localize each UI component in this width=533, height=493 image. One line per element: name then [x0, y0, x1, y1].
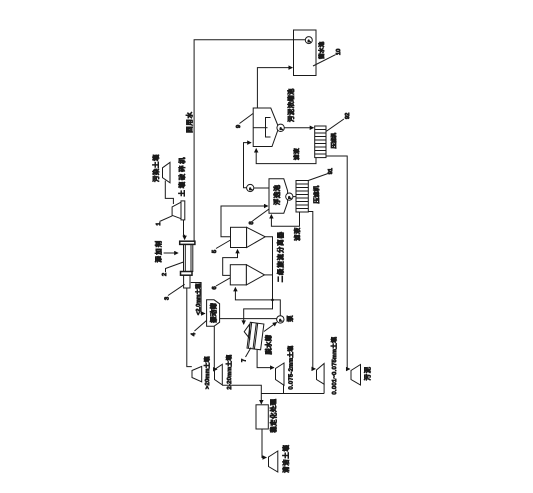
wire screen4 fines to sump pump	[220, 318, 277, 320]
crusher 土壤破碎机	[172, 156, 186, 220]
wire cyclone underflow to dewatering screen	[244, 237, 273, 324]
label 9	[234, 113, 253, 128]
svg-text:2-20mm土壤: 2-20mm土壤	[225, 355, 233, 390]
svg-text:蓄水池: 蓄水池	[318, 41, 326, 59]
svg-text:9: 9	[234, 125, 242, 128]
svg-text:91: 91	[326, 168, 334, 174]
svg-text:5: 5	[210, 250, 218, 253]
reservoir 10 蓄水池	[294, 30, 326, 76]
svg-text:土壤破碎机: 土壤破碎机	[177, 156, 186, 197]
label 1	[154, 216, 173, 226]
svg-text:P: P	[279, 127, 285, 130]
pile >20mm soil	[192, 356, 211, 389]
wire press92 cake to sludge pile	[326, 156, 350, 369]
svg-text:二级旋流分离器: 二级旋流分离器	[275, 231, 284, 282]
label 2	[160, 262, 183, 276]
dewatering screen 7 脱水筛	[244, 322, 272, 354]
svg-text:回用水: 回用水	[184, 111, 193, 133]
additive arrow 添加剂	[154, 239, 179, 262]
svg-text:0.001~0.075mm土壤: 0.001~0.075mm土壤	[330, 337, 338, 395]
svg-text:脱水筛: 脱水筛	[264, 335, 273, 355]
cyclone stage1 lower 6	[230, 265, 264, 285]
label 3	[162, 284, 184, 300]
wire thickener pump to filter press 92	[284, 127, 313, 129]
svg-text:P: P	[307, 39, 313, 42]
pile 0.075-2mm soil	[276, 346, 295, 390]
flotation tank 8 浮选池	[269, 179, 293, 213]
cyclone stage2 upper 5	[231, 227, 266, 247]
svg-text:2: 2	[160, 273, 168, 276]
svg-text:6: 6	[210, 286, 218, 289]
inspection box 检测验收	[256, 398, 278, 432]
wire dewatering screen to 0.075-2mm pile	[257, 350, 274, 368]
wire sump pump to cyclone2 feed	[235, 288, 280, 316]
svg-text:污染土壤: 污染土壤	[151, 154, 160, 182]
svg-text:8: 8	[247, 221, 255, 224]
filtrate return 92 滤液	[256, 148, 316, 164]
wire cyclone2 overflow to cyclone1 feed	[223, 250, 238, 276]
svg-text:<2.0mm土壤: <2.0mm土壤	[194, 283, 202, 315]
svg-text:7: 7	[239, 359, 247, 362]
svg-text:1: 1	[154, 222, 162, 225]
wire trommel fines to screen4	[191, 283, 205, 316]
svg-text:>20mm土壤: >20mm土壤	[203, 356, 211, 389]
pile 清洁土壤 clean soil	[269, 444, 291, 472]
pile 2-20mm soil	[215, 355, 234, 390]
svg-text:滤液: 滤液	[292, 148, 300, 160]
wire trommel oversize to >20mm pile	[187, 288, 192, 367]
trommel washer 2	[180, 241, 195, 288]
label 92	[326, 113, 351, 132]
label 8	[247, 209, 269, 225]
wire flotation pump to filter press 91	[293, 196, 296, 198]
svg-text:92: 92	[343, 113, 351, 119]
hopper 污染土壤	[151, 154, 170, 183]
label 10	[313, 49, 342, 66]
collection line to inspection box	[222, 384, 324, 404]
svg-text:添加剂: 添加剂	[154, 239, 163, 262]
svg-text:泵: 泵	[285, 315, 294, 322]
label 6	[210, 278, 231, 290]
wire press91 cake to 0.001-0.075mm pile	[308, 212, 315, 369]
label 7	[239, 348, 251, 363]
svg-text:0.075-2mm土壤: 0.075-2mm土壤	[287, 346, 295, 390]
svg-text:污泥浓缩池: 污泥浓缩池	[286, 88, 295, 122]
wire crusher to trommel	[184, 220, 185, 240]
label 5	[210, 240, 231, 253]
thickener 9 污泥浓缩池	[253, 88, 295, 147]
sump pump circle	[264, 315, 294, 332]
filter press 92 压滤机	[315, 126, 338, 158]
svg-text:P: P	[278, 319, 284, 322]
svg-text:压滤机: 压滤机	[330, 132, 338, 148]
pile 污泥 sludge	[351, 365, 372, 386]
recycled water line 回用水	[184, 40, 305, 241]
filtrate return 91 滤液	[271, 212, 301, 241]
wire inspection to clean soil	[262, 429, 266, 458]
svg-text:振动筛: 振动筛	[209, 303, 218, 323]
screen 4 振动筛	[207, 300, 220, 327]
feed pump to thickener	[244, 143, 270, 192]
wire screen4 underflow to 2-20mm pile	[214, 326, 217, 369]
wire thickener overflow to reservoir	[257, 68, 292, 108]
svg-text:压滤机: 压滤机	[312, 186, 321, 204]
svg-text:10: 10	[334, 49, 342, 55]
svg-text:P: P	[287, 196, 293, 199]
label 91	[308, 168, 334, 180]
svg-text:P: P	[248, 187, 254, 190]
wire hopper to crusher	[165, 181, 173, 204]
svg-text:3: 3	[162, 297, 170, 300]
svg-text:污泥: 污泥	[363, 366, 372, 381]
label 4	[189, 321, 207, 337]
svg-text:滤液: 滤液	[292, 227, 301, 241]
svg-text:清洁土壤: 清洁土壤	[281, 444, 290, 472]
pile 0.001-0.075mm soil	[317, 337, 339, 395]
svg-text:4: 4	[189, 333, 197, 336]
filter press 91 压滤机	[296, 181, 321, 213]
wire cyclone1 overflow to flotation	[221, 206, 268, 237]
svg-text:浮选池: 浮选池	[272, 184, 281, 205]
svg-text:稳定化处理: 稳定化处理	[269, 398, 278, 432]
